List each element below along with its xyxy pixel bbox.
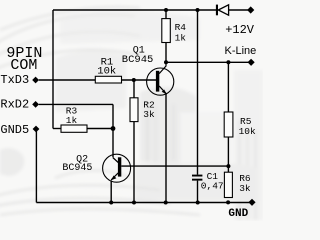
pin GND5 diamond bbox=[33, 126, 40, 133]
wire RxD2 horizontal bbox=[39, 103, 113, 105]
svg-text:GND5: GND5 bbox=[0, 123, 29, 137]
svg-text:K-Line: K-Line bbox=[225, 45, 257, 57]
resistor R4 bbox=[162, 19, 187, 44]
wire C1 bottom lead to ground rail bbox=[197, 181, 199, 203]
wire K-Line rail bbox=[166, 61, 249, 63]
resistor R1 bbox=[95, 56, 121, 83]
node R5/R6/Q2 base bbox=[226, 164, 230, 168]
wire top rail bbox=[53, 9, 216, 11]
resistor R6 bbox=[224, 172, 251, 197]
pin RxD2 diamond bbox=[32, 101, 39, 108]
svg-text:RxD2: RxD2 bbox=[0, 98, 29, 112]
capacitor C1 bbox=[192, 171, 224, 191]
wire top rail right of diode bbox=[229, 9, 248, 11]
wire R4 bottom lead to collector node bbox=[165, 43, 167, 63]
svg-text:3k: 3k bbox=[143, 109, 155, 120]
node R3 right / Q2 collector bbox=[111, 126, 116, 131]
svg-text:3k: 3k bbox=[239, 183, 251, 194]
wire C1 top lead from +12V rail bbox=[197, 10, 199, 175]
wire R1 to Q1 base bbox=[122, 79, 157, 81]
terminal +12V diamond bbox=[247, 6, 254, 13]
svg-text:BC945: BC945 bbox=[122, 54, 154, 66]
wire R2 bottom lead to ground rail bbox=[133, 122, 135, 203]
svg-text:BC945: BC945 bbox=[62, 163, 92, 174]
svg-text:10k: 10k bbox=[239, 126, 256, 137]
node C1 on ground rail bbox=[196, 201, 200, 205]
wire Q2 emitter down to ground rail bbox=[110, 181, 112, 203]
label 9PIN COM bbox=[6, 45, 42, 74]
node Q1 emitter on ground rail bbox=[164, 201, 168, 205]
node R6 on ground rail bbox=[226, 200, 230, 204]
node R5 top on K-Line bbox=[226, 60, 230, 64]
node Q2 emitter on ground rail bbox=[109, 201, 113, 205]
wire RxD2 vertical to Q2 collector bbox=[112, 104, 114, 157]
svg-text:0,47: 0,47 bbox=[201, 180, 224, 191]
wire Q2 base line to R5/R6 node bbox=[121, 165, 228, 167]
terminal K-Line diamond bbox=[248, 59, 255, 66]
wire left vertical from top rail bbox=[52, 10, 54, 129]
wire Q1 emitter down to ground rail bbox=[165, 94, 167, 203]
svg-text:COM: COM bbox=[10, 57, 37, 74]
resistor R3 bbox=[61, 106, 87, 133]
node R2 on ground rail bbox=[132, 201, 136, 205]
wire GND5 vertical bbox=[35, 131, 37, 203]
node C1 on +12V rail bbox=[196, 8, 200, 12]
wire R5 top lead bbox=[227, 62, 229, 112]
wire R4 top lead bbox=[165, 10, 167, 19]
svg-text:1k: 1k bbox=[175, 33, 187, 44]
node Q1 collector / K-Line bbox=[164, 60, 168, 64]
resistor R2 bbox=[130, 98, 155, 122]
wire R6 leads bbox=[227, 166, 229, 172]
svg-text:GND: GND bbox=[228, 208, 248, 220]
wire R5 bottom lead bbox=[227, 137, 229, 166]
terminal GND diamond bbox=[248, 199, 255, 206]
svg-text:TxD3: TxD3 bbox=[0, 73, 29, 87]
faint background watermark (decorative) bbox=[0, 7, 263, 220]
pin TxD3 diamond bbox=[32, 77, 39, 84]
svg-text:1k: 1k bbox=[66, 115, 78, 126]
wire R3 left stub bbox=[53, 128, 61, 130]
transistor Q2 bbox=[62, 154, 130, 182]
diode D1 bbox=[216, 5, 229, 16]
node R1/R2/Q1 base bbox=[132, 78, 136, 82]
wire TxD3 to R1 bbox=[39, 79, 96, 81]
wire ground rail bbox=[36, 202, 249, 204]
transistor Q1 bbox=[122, 45, 174, 95]
wire R2 top lead bbox=[133, 80, 135, 98]
svg-text:10k: 10k bbox=[97, 65, 116, 77]
wire R3 right stub bbox=[87, 128, 113, 130]
resistor R5 bbox=[224, 112, 256, 137]
svg-text:+12V: +12V bbox=[225, 23, 255, 37]
node R4 top on +12V rail bbox=[164, 8, 168, 12]
